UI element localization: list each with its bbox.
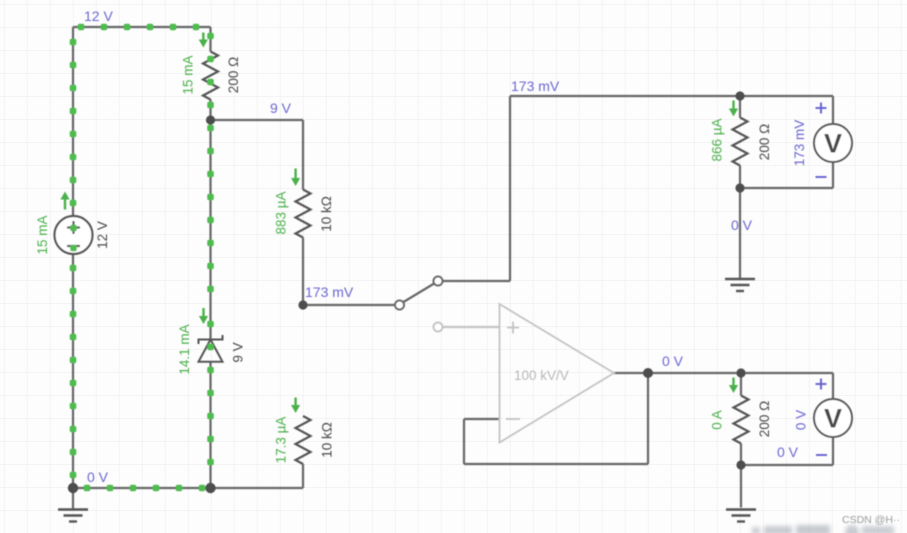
node label 173 mV (top rail) [511,78,560,94]
node junction ground-mid [205,483,215,493]
current arrow of D1 (14.1 mA down) [199,308,208,324]
svg-text:173 mV: 173 mV [792,120,807,167]
svg-text:15 mA: 15 mA [181,55,196,94]
value label 10 kΩ of R3 [320,422,335,458]
svg-text:15 mA: 15 mA [35,215,50,254]
reading label 173 mV of VM1 [792,120,807,167]
watermark CSDN @H [842,514,900,526]
value label 9 V of D1 [231,342,246,362]
wire R4 bottom node to ground [739,188,741,279]
ground top-right (below R4) [725,279,755,291]
svg-text:0 A: 0 A [710,410,725,430]
svg-text:10 kΩ: 10 kΩ [319,196,334,232]
node 9V junction [206,115,215,124]
node junction R4 top [735,91,744,100]
ground bottom-left [58,488,88,522]
value label 200 Ω of R4 [757,124,772,160]
node junction ground-left [68,483,78,493]
resistor R2 10 kOhm [296,190,311,238]
wire feedback to op-amp inverting input [464,418,500,420]
wire R5 top lead [740,373,742,396]
svg-text:883 µA: 883 µA [274,191,289,234]
resistor R3 10 kOhm [296,416,311,464]
node label 12 V [84,8,113,24]
switch SW1 pole terminal [395,301,404,310]
current arrow of R4 (866 uA down) [729,101,738,117]
svg-text:12 V: 12 V [95,221,110,249]
wire R4 top lead [739,96,741,118]
value label 14.1 mA of D1 [177,324,192,374]
svg-text:9 V: 9 V [231,342,246,362]
wire VM2 bottom to R5 bottom node [741,464,833,466]
node junction R5 top [736,368,745,377]
resistor R1 200 Ohm [203,52,218,100]
wire R1 bottom lead to node 9V [209,100,211,121]
svg-text:0 V: 0 V [87,469,109,485]
wire node 173mV to switch pole [303,304,396,306]
value label 883 µA of R2 [274,191,289,234]
svg-text:200 Ω: 200 Ω [226,57,241,93]
wire R5 bottom lead [740,444,742,466]
value label 0 A of R5 [710,410,725,430]
current arrow of R5 (0 A down) [729,378,738,394]
blurred watermark logo bottom edge [752,525,894,533]
wire zener bottom to ground rail [209,362,211,488]
wire node 9V horizontal [211,119,304,121]
wire R2 top lead [302,120,304,190]
wire output node to R5 node [648,372,741,374]
node label 0 V (below R4) [731,217,753,233]
plus terminal marker of VM1 [816,103,827,114]
node label 9 V [270,100,292,116]
svg-text:V: V [824,129,842,159]
wire switch throw1 to riser [441,280,510,282]
minus terminal marker of VM1 [816,176,827,178]
wire top-left horizontal 12V net [73,26,211,28]
node label 0 V (VM2 minus) [777,444,799,460]
wire bottom-left horizontal (ground rail) [73,487,211,489]
value label 15 mA of V1 [35,215,50,254]
plus terminal marker of VM2 [816,379,827,390]
value label 200 Ω of R5 [757,401,772,437]
wire riser to top rail 173mV [509,96,511,281]
value label 15 mA of R1 [181,55,196,94]
wire left vertical lower (source bottom to ground node) [72,254,74,488]
node junction op-amp output [643,368,653,378]
svg-text:173 mV: 173 mV [305,284,354,300]
svg-text:14.1 mA: 14.1 mA [177,324,192,374]
wire feedback bottom horizontal [464,463,648,465]
wire R1 top lead [209,27,211,52]
voltage source V1 12V / 15 mA [55,216,93,254]
wire feedback output node down [647,373,649,464]
switch SW1 throw terminal 1 (closed) [434,277,443,286]
node junction R4 bottom [735,183,744,192]
wire node 9V to zener top [209,120,211,340]
wire left vertical upper (source top to top rail) [72,27,74,216]
wire VM1 bottom to R4 bottom node [740,187,833,189]
wire R2 bottom lead to node 173mV [302,238,304,306]
wire voltmeter VM1 bottom lead [832,162,834,189]
node 173mV junction [298,300,307,309]
switch SW1 lever [401,283,435,304]
wire op-amp output to node [614,372,648,374]
current flow dots on 15 mA loop [70,24,214,492]
value label 12 V of V1 [95,221,110,249]
value label 200 Ω of R1 [226,57,241,93]
reading label 0 V of VM2 [794,410,809,430]
wire bottom-middle horizontal (ground rail to R3) [211,487,304,489]
wire R5 node to VM2 branch [741,372,833,374]
wire voltmeter VM1 top lead [832,96,834,125]
zener diode D1 9V [199,335,223,362]
wire top rail 173mV to R4 node [510,95,740,97]
svg-text:200 Ω: 200 Ω [757,124,772,160]
minus terminal marker of VM2 [816,454,827,456]
svg-text:17.3 µA: 17.3 µA [274,417,289,464]
value label 17.3 µA of R3 [274,417,289,464]
resistor R5 200 Ohm [734,396,749,444]
svg-text:10 kΩ: 10 kΩ [320,422,335,458]
voltmeter VM2 [814,399,852,437]
node label 0 V (op-amp output) [662,353,684,369]
wire voltmeter VM2 bottom lead [832,437,834,466]
current arrow of R2 (883 uA down) [291,169,300,187]
svg-text:12 V: 12 V [84,8,113,24]
value label 10 kΩ of R2 [319,196,334,232]
svg-text:CSDN @H··: CSDN @H·· [842,514,900,526]
wire R4 bottom lead [739,166,741,189]
svg-text:0 V: 0 V [794,410,809,430]
svg-text:173 mV: 173 mV [511,78,560,94]
value label 866 µA of R4 [710,118,725,161]
svg-text:9 V: 9 V [270,100,292,116]
svg-text:200 Ω: 200 Ω [757,401,772,437]
voltmeter VM1 [814,124,852,162]
svg-text:0 V: 0 V [731,217,753,233]
resistor R4 200 Ohm [733,118,748,166]
wire R5 bottom node to ground [740,465,742,508]
wire voltmeter VM2 top lead [832,373,834,400]
node junction R5 bottom [736,460,745,469]
wire R3 bottom lead [302,464,304,488]
ground bottom-right (below R5) [726,510,756,522]
wire R4 node to voltmeter branch [740,95,833,97]
svg-text:0 V: 0 V [777,444,799,460]
current arrow of V1 (15 mA up) [60,192,69,210]
svg-text:V: V [824,404,842,434]
wire feedback left vertical [463,419,465,464]
current arrow of R1 (15 mA down) [199,33,208,48]
svg-text:0 V: 0 V [662,353,684,369]
op-amp U1 100 kV/V [500,304,615,443]
node label 0 V (bottom-left ground) [87,469,109,485]
node label 173 mV (switch input) [305,284,354,300]
current arrow of R3 (17.3 uA down) [291,398,300,414]
svg-text:866 µA: 866 µA [710,118,725,161]
switch SW1 throw terminal 2 (open) [434,323,443,332]
wire switch throw2 to op-amp non-inverting input (open) [441,326,500,328]
svg-text:100 kV/V: 100 kV/V [514,368,569,383]
gain label 100 kV/V of U1 [514,368,569,383]
